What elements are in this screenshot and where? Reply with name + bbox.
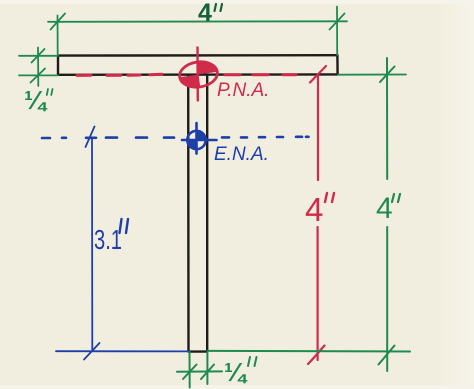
left 1/4" dimension (green) — [19, 48, 58, 87]
svg-text:¼: ¼ — [224, 357, 248, 387]
T-beam flange outline — [58, 55, 338, 75]
E.N.A. marker (circle with crosshair) — [182, 123, 217, 154]
top dimension text 4" — [198, 0, 212, 27]
svg-text:E.N.A.: E.N.A. — [214, 144, 269, 165]
bottom green horizontal line — [208, 350, 411, 353]
top dimension line 4" (green) — [48, 7, 347, 56]
E.N.A. blue dashed line — [42, 137, 309, 138]
svg-text:4: 4 — [376, 192, 393, 225]
red dimension line 4" (right of web) — [308, 66, 326, 364]
bottom 1/4" dimension (green) — [177, 352, 222, 388]
svg-text:¼: ¼ — [24, 85, 48, 115]
svg-text:P.N.A.: P.N.A. — [217, 80, 269, 101]
blue dimension line 3.1" (left) — [56, 127, 189, 360]
right green dimension line 4" — [379, 58, 395, 371]
left 1/4" text — [24, 85, 48, 115]
svg-text:4: 4 — [305, 191, 323, 228]
right green extension line (flange bottom level) — [338, 74, 406, 76]
svg-text:4: 4 — [198, 0, 212, 27]
svg-text:3.1: 3.1 — [94, 224, 122, 255]
P.N.A. marker vertical line — [196, 48, 199, 101]
T-beam web outline — [188, 75, 207, 352]
P.N.A. red dashed line — [77, 74, 296, 75]
P.N.A. marker ellipse — [178, 59, 219, 89]
